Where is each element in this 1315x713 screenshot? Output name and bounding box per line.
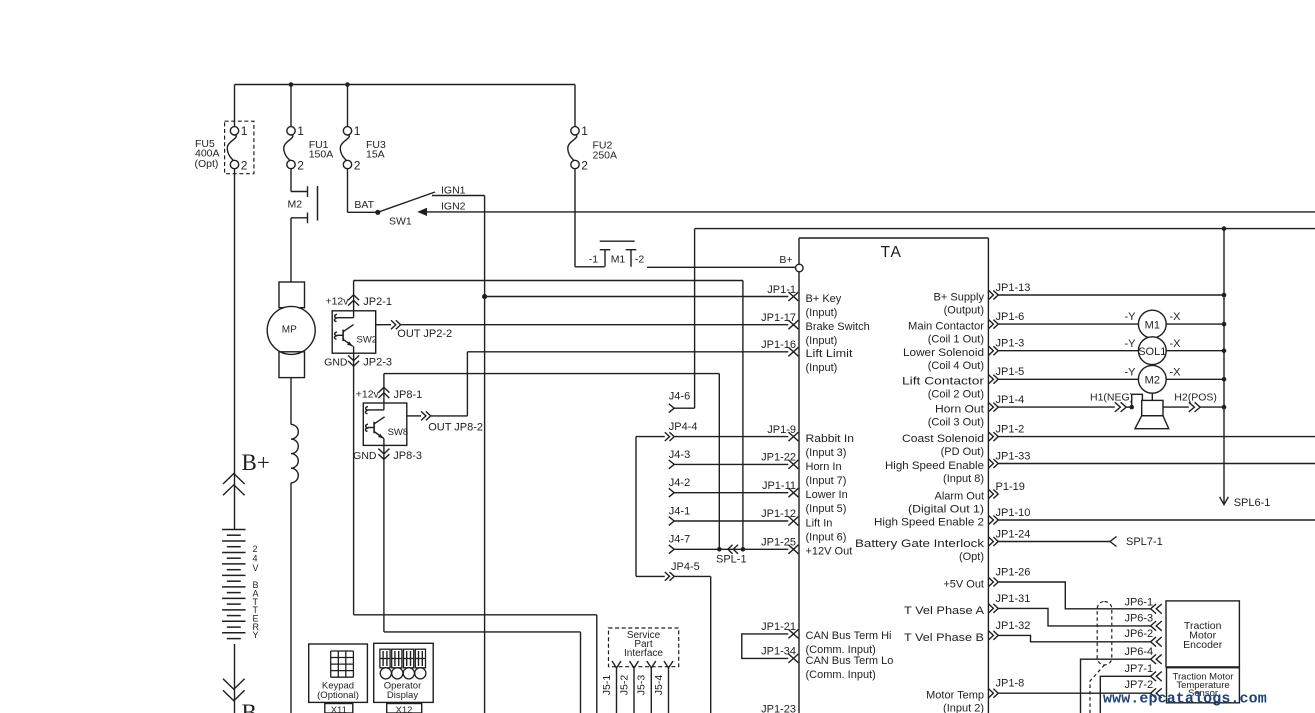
svg-text:(Coil 4 Out): (Coil 4 Out) <box>928 360 984 372</box>
svg-text:-1: -1 <box>589 254 598 266</box>
svg-text:High Speed Enable 2: High Speed Enable 2 <box>874 516 984 528</box>
svg-text:H1(NEG): H1(NEG) <box>1090 391 1133 403</box>
svg-text:J4-6: J4-6 <box>669 391 690 403</box>
svg-text:GND: GND <box>324 357 348 369</box>
svg-text:2: 2 <box>581 158 588 172</box>
svg-text:J5-3: J5-3 <box>636 675 648 696</box>
svg-text:2: 2 <box>354 158 361 172</box>
svg-text:(Output): (Output) <box>944 304 984 316</box>
svg-text:B+: B+ <box>242 450 270 475</box>
svg-text:JP1-26: JP1-26 <box>996 566 1031 578</box>
svg-text:-Y: -Y <box>1125 366 1137 378</box>
svg-text:(Input): (Input) <box>806 362 838 374</box>
svg-text:P1-19: P1-19 <box>996 481 1025 493</box>
svg-text:JP1-13: JP1-13 <box>996 282 1031 294</box>
svg-text:(PD Out): (PD Out) <box>941 446 984 458</box>
svg-text:JP2-3: JP2-3 <box>363 357 392 369</box>
svg-text:www.epcatalogs.com: www.epcatalogs.com <box>1103 691 1267 708</box>
svg-text:SPL-1: SPL-1 <box>716 554 747 566</box>
svg-text:2: 2 <box>241 158 248 172</box>
svg-text:Lower In: Lower In <box>806 489 848 501</box>
svg-text:+12v: +12v <box>356 389 380 401</box>
svg-text:J5-2: J5-2 <box>618 675 630 696</box>
svg-text:(Optional): (Optional) <box>317 690 359 701</box>
svg-text:JP1-10: JP1-10 <box>996 507 1031 519</box>
svg-text:JP1-1: JP1-1 <box>767 284 796 296</box>
svg-text:J5-4: J5-4 <box>653 675 665 696</box>
svg-text:JP1-11: JP1-11 <box>762 480 796 492</box>
svg-text:TA: TA <box>881 244 903 261</box>
svg-text:CAN Bus Term Hi: CAN Bus Term Hi <box>806 630 892 642</box>
svg-text:Motor Temp: Motor Temp <box>926 690 984 702</box>
svg-text:GND: GND <box>353 450 377 462</box>
svg-text:CAN Bus Term Lo: CAN Bus Term Lo <box>806 655 894 667</box>
svg-text:JP1-23: JP1-23 <box>761 703 796 713</box>
svg-text:J4-2: J4-2 <box>669 477 690 489</box>
svg-text:JP6-4: JP6-4 <box>1124 646 1153 658</box>
svg-text:JP8-3: JP8-3 <box>393 450 422 462</box>
svg-text:-X: -X <box>1170 338 1182 350</box>
svg-text:J4-7: J4-7 <box>669 534 690 546</box>
svg-text:JP4-5: JP4-5 <box>671 561 700 573</box>
svg-text:-Y: -Y <box>1125 311 1137 323</box>
svg-text:JP7-1: JP7-1 <box>1124 663 1153 675</box>
svg-text:Lower Solenoid: Lower Solenoid <box>903 347 984 359</box>
svg-text:(Comm. Input): (Comm. Input) <box>806 669 876 681</box>
svg-text:SW2: SW2 <box>357 335 378 346</box>
svg-text:M1: M1 <box>1145 319 1160 331</box>
svg-text:4: 4 <box>253 554 258 564</box>
svg-text:High Speed Enable: High Speed Enable <box>885 460 984 472</box>
svg-text:Lift In: Lift In <box>806 517 833 529</box>
svg-text:1: 1 <box>581 124 588 138</box>
svg-text:V: V <box>253 563 259 573</box>
svg-text:(Input 7): (Input 7) <box>806 475 847 487</box>
svg-text:Y: Y <box>253 630 259 640</box>
svg-text:JP1-22: JP1-22 <box>761 452 796 464</box>
svg-text:JP1-2: JP1-2 <box>996 424 1025 436</box>
svg-text:(Coil 1 Out): (Coil 1 Out) <box>928 334 984 346</box>
svg-text:B+ Key: B+ Key <box>806 293 842 305</box>
svg-text:JP1-3: JP1-3 <box>996 338 1025 350</box>
svg-text:(Input 5): (Input 5) <box>806 503 847 515</box>
svg-text:JP1-17: JP1-17 <box>761 312 796 324</box>
svg-text:+12V Out: +12V Out <box>806 546 853 558</box>
svg-text:(Digital Out 1): (Digital Out 1) <box>908 503 984 515</box>
svg-text:M1: M1 <box>611 254 626 266</box>
svg-text:(Input 2): (Input 2) <box>943 703 984 713</box>
svg-text:(Input 3): (Input 3) <box>806 447 847 459</box>
svg-text:(Input 6): (Input 6) <box>806 531 847 543</box>
svg-text:JP1-34: JP1-34 <box>761 646 796 658</box>
svg-text:OUT JP2-2: OUT JP2-2 <box>397 328 452 340</box>
svg-text:Brake Switch: Brake Switch <box>806 321 870 333</box>
svg-text:1: 1 <box>354 124 361 138</box>
svg-text:H2(POS): H2(POS) <box>1174 391 1217 403</box>
svg-text:JP6-1: JP6-1 <box>1124 597 1153 609</box>
svg-text:X12: X12 <box>396 705 413 713</box>
svg-text:T Vel Phase A: T Vel Phase A <box>904 605 985 617</box>
svg-text:SPL7-1: SPL7-1 <box>1126 536 1163 548</box>
svg-text:JP4-4: JP4-4 <box>669 421 698 433</box>
svg-text:JP1-12: JP1-12 <box>761 508 796 520</box>
svg-text:J4-1: J4-1 <box>669 505 690 517</box>
svg-text:JP6-3: JP6-3 <box>1124 612 1153 624</box>
svg-text:J4-3: J4-3 <box>669 449 690 461</box>
svg-text:(Input): (Input) <box>806 307 838 319</box>
svg-text:SPL6-1: SPL6-1 <box>1234 497 1271 509</box>
svg-text:IGN1: IGN1 <box>441 185 466 197</box>
svg-text:JP1-16: JP1-16 <box>761 339 796 351</box>
svg-text:JP1-8: JP1-8 <box>996 678 1025 690</box>
svg-text:1: 1 <box>241 124 248 138</box>
svg-text:SW8: SW8 <box>388 427 409 438</box>
svg-text:(Opt): (Opt) <box>195 158 219 170</box>
svg-text:+5V Out: +5V Out <box>943 578 984 590</box>
svg-text:-2: -2 <box>635 254 644 266</box>
svg-text:Coast Solenoid: Coast Solenoid <box>902 433 984 445</box>
svg-text:M2: M2 <box>288 199 303 211</box>
svg-text:JP1-33: JP1-33 <box>996 450 1031 462</box>
svg-text:SOL1: SOL1 <box>1138 346 1166 358</box>
svg-text:T Vel Phase B: T Vel Phase B <box>904 632 984 644</box>
svg-text:Horn In: Horn In <box>806 461 842 473</box>
svg-text:Rabbit In: Rabbit In <box>806 433 855 445</box>
svg-text:JP6-2: JP6-2 <box>1124 628 1153 640</box>
svg-text:+12v: +12v <box>325 296 349 308</box>
svg-text:BAT: BAT <box>354 199 374 211</box>
svg-text:B+ Supply: B+ Supply <box>934 291 985 303</box>
svg-text:Alarm Out: Alarm Out <box>934 490 984 502</box>
svg-text:JP1-9: JP1-9 <box>767 424 796 436</box>
svg-text:Lift Limit: Lift Limit <box>806 348 853 360</box>
svg-text:Main Contactor: Main Contactor <box>908 321 984 333</box>
svg-text:-X: -X <box>1170 311 1182 323</box>
svg-text:OUT JP8-2: OUT JP8-2 <box>428 422 483 434</box>
svg-text:150A: 150A <box>309 149 334 161</box>
svg-text:2: 2 <box>253 544 258 554</box>
svg-text:JP1-32: JP1-32 <box>996 620 1031 632</box>
svg-text:M2: M2 <box>1145 375 1160 387</box>
svg-text:JP1-25: JP1-25 <box>761 537 796 549</box>
svg-text:JP2-1: JP2-1 <box>363 296 392 308</box>
svg-text:(Input 8): (Input 8) <box>943 473 984 485</box>
svg-text:X11: X11 <box>331 705 347 713</box>
svg-text:(Coil 3 Out): (Coil 3 Out) <box>928 417 984 429</box>
svg-text:-Y: -Y <box>1125 338 1137 350</box>
svg-text:JP1-31: JP1-31 <box>996 593 1031 605</box>
svg-text:(Coil 2 Out): (Coil 2 Out) <box>928 389 984 401</box>
svg-text:1: 1 <box>297 124 304 138</box>
svg-text:JP1-6: JP1-6 <box>996 311 1025 323</box>
svg-text:Encoder: Encoder <box>1183 639 1223 651</box>
svg-text:JP1-5: JP1-5 <box>996 366 1025 378</box>
svg-text:(Input): (Input) <box>806 335 838 347</box>
svg-text:250A: 250A <box>593 150 618 162</box>
svg-text:MP: MP <box>282 325 297 336</box>
svg-text:15A: 15A <box>366 149 385 161</box>
svg-text:J5-1: J5-1 <box>601 675 613 696</box>
svg-text:JP8-1: JP8-1 <box>394 389 423 401</box>
svg-text:2: 2 <box>297 158 304 172</box>
svg-text:Lift Contactor: Lift Contactor <box>902 376 984 388</box>
svg-text:-X: -X <box>1170 366 1182 378</box>
svg-text:Horn Out: Horn Out <box>935 404 984 416</box>
svg-text:JP1-21: JP1-21 <box>761 621 796 633</box>
svg-text:IGN2: IGN2 <box>441 201 466 213</box>
svg-text:Display: Display <box>387 690 418 701</box>
svg-text:JP7-2: JP7-2 <box>1124 679 1153 691</box>
svg-text:(Opt): (Opt) <box>959 551 984 563</box>
svg-text:SW1: SW1 <box>389 215 412 227</box>
svg-text:Battery Gate Interlock: Battery Gate Interlock <box>855 538 985 550</box>
svg-text:JP1-24: JP1-24 <box>996 528 1031 540</box>
svg-text:Interface: Interface <box>624 648 663 659</box>
svg-text:B: B <box>242 700 257 713</box>
svg-text:B+: B+ <box>779 254 792 266</box>
svg-text:JP1-4: JP1-4 <box>996 394 1025 406</box>
